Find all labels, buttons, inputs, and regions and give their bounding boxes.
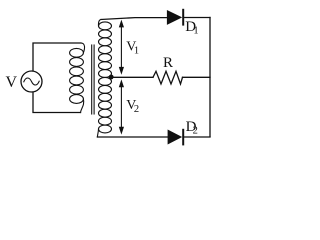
label V2	[126, 98, 139, 115]
right vertical wire	[209, 18, 211, 137]
svg-text:2: 2	[193, 126, 198, 137]
label V1	[126, 40, 139, 57]
wire D1 cathode to top-right corner	[183, 17, 210, 19]
label D1	[185, 19, 198, 37]
resistor R zigzag	[153, 71, 183, 84]
diode D1	[167, 10, 183, 25]
transformer secondary winding	[97, 20, 111, 138]
wire D2 cathode to bottom-right corner	[183, 136, 210, 138]
svg-text:1: 1	[134, 46, 139, 57]
V1 measurement arrow	[119, 20, 124, 75]
wire source bottom to primary bottom	[33, 92, 81, 113]
transformer primary winding	[70, 43, 85, 113]
center tap junction dot	[109, 75, 114, 80]
label D2	[186, 119, 198, 137]
wire secondary top to D1 anode	[101, 18, 167, 20]
ac source V1 circle	[21, 71, 42, 92]
wire center tap to resistor	[111, 76, 153, 78]
transformer core	[92, 45, 94, 114]
svg-text:V: V	[6, 74, 18, 91]
diode D2	[168, 130, 183, 145]
wire secondary bottom to D2 anode	[97, 136, 168, 138]
V2 measurement arrow	[119, 79, 124, 134]
wire resistor to right vertical	[183, 76, 211, 78]
sine symbol inside source	[24, 78, 39, 85]
svg-text:2: 2	[134, 104, 139, 115]
svg-text:R: R	[163, 55, 173, 71]
wire source top to primary top	[33, 43, 81, 71]
svg-text:1: 1	[193, 26, 198, 37]
